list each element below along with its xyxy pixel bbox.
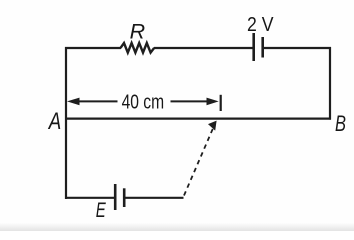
wire right vertical: [329, 47, 331, 120]
dimension end tick: [220, 95, 222, 111]
svg-text:A: A: [47, 108, 61, 135]
dimension line right segment: [171, 100, 210, 102]
wire left vertical: [65, 47, 67, 199]
wire top-middle segment: [154, 47, 254, 49]
dimension arrowhead left: [67, 98, 80, 106]
jockey arrowhead: [208, 121, 217, 131]
battery E short plate: [123, 188, 126, 207]
svg-text:E: E: [96, 199, 107, 222]
jockey dashed arrow: [184, 126, 214, 196]
svg-text:2 V: 2 V: [247, 14, 274, 36]
dimension line left segment: [77, 100, 118, 102]
dimension arrowhead right: [207, 98, 219, 106]
wire bottom-right segment: [124, 197, 183, 199]
battery E long plate: [114, 184, 117, 210]
resistor R: [121, 43, 155, 53]
svg-text:40 cm: 40 cm: [122, 91, 165, 113]
svg-text:R: R: [130, 19, 146, 43]
wire top-left horizontal segment: [65, 47, 121, 49]
wire A to B (potentiometer wire): [65, 117, 331, 119]
wire top-right segment: [263, 47, 331, 49]
battery 2V short plate: [261, 37, 264, 58]
svg-text:B: B: [335, 111, 346, 136]
wire bottom-left segment: [65, 197, 115, 199]
battery 2V long plate: [252, 33, 255, 61]
